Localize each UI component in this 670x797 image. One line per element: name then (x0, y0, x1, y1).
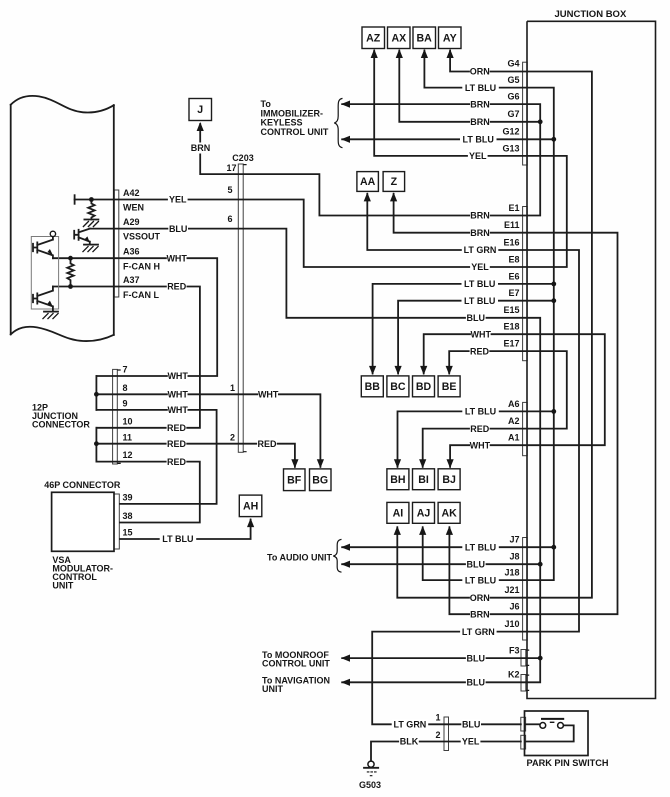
svg-text:LT BLU: LT BLU (464, 279, 495, 289)
label LT BLU wire at y301 (462, 295, 499, 306)
wire RED A37 F-CAN L to 12P row10 (53, 287, 200, 428)
label BRN wire at y104 (470, 99, 490, 110)
svg-text:E6: E6 (508, 271, 519, 281)
node 12P row11 junction (94, 441, 99, 446)
svg-text:BI: BI (418, 474, 429, 486)
node A6 junction (551, 409, 556, 414)
label LT BLU wire at y284 (462, 278, 499, 289)
12P left bus RED rows 10-12 (95, 428, 97, 462)
wire WHT 12P row8 / C203 pin1 / BG (96, 394, 320, 467)
label YEL wire at y156 (468, 150, 488, 161)
svg-text:G503: G503 (359, 780, 381, 790)
wire LT BLU 46P pin15 to AH (120, 520, 251, 540)
wire RED 12P row11 / C203 pin2 / BF (96, 444, 295, 467)
svg-text:JUNCTION BOX: JUNCTION BOX (555, 9, 627, 20)
label BRN wire at y233 (470, 227, 490, 238)
svg-text:CONTROL UNIT: CONTROL UNIT (261, 127, 329, 137)
svg-text:LT BLU: LT BLU (465, 542, 496, 552)
label RED wire at y462 (167, 456, 187, 467)
svg-text:UNIT: UNIT (262, 684, 283, 694)
terminal box BJ (438, 469, 460, 490)
label ORN wire at y598 (470, 592, 490, 603)
label RED wire at y351 (470, 346, 490, 357)
node G12/LTBLU junction (551, 137, 556, 142)
svg-text:AX: AX (391, 32, 406, 44)
junction box connector bar E1-E17 (523, 207, 528, 361)
svg-text:BA: BA (417, 32, 433, 44)
svg-text:WHT: WHT (167, 371, 188, 381)
svg-text:AI: AI (393, 507, 404, 519)
svg-text:BRN: BRN (191, 143, 211, 153)
svg-text:E18: E18 (503, 322, 519, 332)
junction box connector F3 (521, 650, 526, 667)
svg-text:AH: AH (243, 501, 258, 513)
terminal box AY (439, 27, 462, 49)
svg-text:LT GRN: LT GRN (393, 720, 426, 730)
wire RED 12P row12 to 46P pin38 (96, 462, 199, 523)
svg-text:ORN: ORN (470, 66, 490, 76)
svg-text:2: 2 (435, 730, 440, 740)
wire BRN net2: Z / E11 / J6 / AK (394, 194, 618, 614)
svg-text:BLU: BLU (467, 653, 486, 663)
label WHT wire at y445 (470, 440, 490, 451)
brace immobilizer (334, 98, 342, 147)
svg-text:BJ: BJ (442, 474, 456, 486)
wire LT BLU A6 to BH (398, 411, 554, 466)
svg-text:To AUDIO UNIT: To AUDIO UNIT (267, 553, 332, 563)
12P junction connector bar (113, 369, 118, 464)
park pin switch connector pin 2 bar (521, 735, 526, 749)
junction box connector bar A6-A1 (523, 402, 528, 455)
label BLU wire at y318 (466, 312, 486, 323)
svg-text:A36: A36 (123, 246, 140, 256)
VSA modulator module outline (torn edges) (11, 96, 114, 113)
terminal box BD (413, 376, 435, 397)
svg-text:1: 1 (230, 383, 235, 393)
svg-text:WHT: WHT (471, 329, 492, 339)
svg-text:BC: BC (390, 381, 406, 393)
node E7 junction (551, 298, 556, 303)
svg-text:CONNECTOR: CONNECTOR (32, 420, 90, 430)
svg-text:WEN: WEN (123, 202, 144, 212)
brace audio (333, 539, 341, 572)
svg-text:A1: A1 (508, 433, 520, 443)
terminal box BB (361, 376, 383, 397)
svg-text:AY: AY (443, 32, 457, 44)
terminal tick A42 (74, 195, 76, 204)
inline connector pins 1-2 bar (444, 717, 449, 751)
svg-text:9: 9 (123, 399, 128, 409)
svg-text:AA: AA (360, 176, 376, 188)
terminal box BC (387, 376, 409, 397)
svg-text:RED: RED (167, 282, 187, 292)
svg-text:BB: BB (365, 381, 381, 393)
park pin switch box (525, 711, 589, 756)
transistor Q1 (F-CAN H) (33, 237, 53, 259)
svg-text:E16: E16 (503, 237, 519, 247)
svg-text:RED: RED (167, 457, 187, 467)
svg-text:A6: A6 (508, 399, 520, 409)
pull-up terminal circle (50, 231, 55, 236)
svg-text:LT BLU: LT BLU (463, 135, 494, 145)
svg-text:WHT: WHT (166, 253, 187, 263)
svg-text:LT BLU: LT BLU (464, 296, 495, 306)
svg-text:F-CAN L: F-CAN L (123, 290, 159, 300)
svg-text:J6: J6 (509, 602, 519, 612)
transistor Q2 (F-CAN L) (33, 287, 53, 311)
svg-text:G12: G12 (502, 127, 519, 137)
label WHT wire at y334 (471, 329, 491, 340)
wire ORN net: AY / G4 / J21 / AI (397, 51, 592, 598)
node G7/BRN junction (538, 119, 543, 124)
svg-text:7: 7 (123, 365, 128, 375)
transistor Q3 (VSSOUT) (74, 229, 90, 244)
terminal box BE (438, 376, 460, 397)
label ORN wire at y71 (470, 66, 490, 77)
label BLU wire at y724 (461, 719, 481, 730)
svg-text:BLU: BLU (467, 559, 486, 569)
svg-text:G5: G5 (507, 75, 519, 85)
svg-text:YEL: YEL (469, 151, 487, 161)
svg-text:G6: G6 (507, 92, 519, 102)
ground G503 (368, 761, 374, 767)
svg-text:RED: RED (167, 439, 187, 449)
12P left bus WHT rows 7-9 (95, 376, 97, 410)
svg-text:LT BLU: LT BLU (162, 534, 193, 544)
svg-text:J10: J10 (504, 619, 519, 629)
svg-text:UNIT: UNIT (52, 581, 73, 591)
node 12P row8 junction (94, 392, 99, 397)
svg-text:BLK: BLK (400, 737, 419, 747)
label LT GRN wire at y632 (460, 626, 497, 637)
svg-text:J8: J8 (509, 552, 519, 562)
svg-text:LT BLU: LT BLU (465, 83, 496, 93)
label LT BLU wire at y139 (460, 134, 497, 145)
label RED wire at y444 (167, 438, 187, 449)
svg-text:BH: BH (390, 474, 405, 486)
svg-text:K2: K2 (508, 670, 520, 680)
terminal box BG (310, 469, 332, 491)
svg-text:BD: BD (416, 381, 432, 393)
label YEL wire at y200 (168, 194, 188, 205)
svg-text:YEL: YEL (462, 737, 480, 747)
label WHT wire at y394 (168, 389, 188, 400)
svg-text:BLU: BLU (467, 313, 486, 323)
svg-text:38: 38 (123, 511, 133, 521)
svg-text:A42: A42 (123, 188, 140, 198)
label LT GRN wire at y250 (462, 244, 499, 255)
wire BRN net: G6/G7/AX, E1, C203 pin17, J box (200, 104, 540, 215)
svg-text:J: J (197, 104, 203, 116)
svg-text:11: 11 (123, 432, 133, 442)
ground (VSSOUT emitter) (84, 244, 98, 246)
svg-text:BLU: BLU (462, 720, 481, 730)
svg-text:E15: E15 (503, 305, 519, 315)
terminal box Z (383, 172, 405, 192)
svg-text:YEL: YEL (169, 195, 187, 205)
terminal box BA (413, 27, 436, 49)
label WHT wire at y258 (167, 253, 187, 264)
svg-text:E1: E1 (508, 203, 519, 213)
terminal box J (189, 99, 212, 121)
svg-text:G7: G7 (507, 109, 519, 119)
terminal box AK (438, 502, 460, 523)
svg-text:39: 39 (123, 493, 133, 503)
ground (WEN resistor) (84, 219, 98, 221)
svg-text:E8: E8 (508, 254, 519, 264)
svg-text:LT GRN: LT GRN (462, 627, 495, 637)
svg-text:C203: C203 (232, 153, 254, 163)
svg-text:BRN: BRN (470, 609, 490, 619)
svg-text:F-CAN H: F-CAN H (123, 261, 160, 271)
wire WHT 12P row9 to 46P pin39 (96, 410, 216, 504)
label WHT wire at y394 (258, 389, 278, 400)
svg-text:J18: J18 (504, 568, 519, 578)
junction box outline (527, 21, 656, 698)
wire LT BLU J7 to audio unit (342, 546, 554, 548)
terminal box AX (388, 27, 411, 49)
terminal box AH (239, 495, 261, 516)
label BRN wire at y122 (470, 116, 490, 127)
svg-text:17: 17 (226, 163, 236, 173)
label BLU wire at y682 (466, 677, 486, 688)
ground (Q2 emitter) (44, 311, 58, 313)
wire LT GRN net: AA / E16 / J10 / park pin switch pin1 (367, 194, 579, 725)
svg-text:BRN: BRN (470, 99, 490, 109)
label BRN wire at y614 (470, 609, 490, 620)
svg-text:BLU: BLU (169, 224, 188, 234)
svg-text:15: 15 (123, 528, 133, 538)
terminal box BH (387, 469, 409, 490)
svg-text:RED: RED (257, 439, 277, 449)
svg-text:1: 1 (435, 713, 440, 723)
label RED wire at y286 (167, 281, 187, 292)
svg-text:A37: A37 (123, 275, 140, 285)
label YEL wire at y742 (461, 736, 481, 747)
label BLU wire at y564 (466, 559, 486, 570)
wire LT BLU E7 to BC (398, 301, 554, 374)
node F3 junction (538, 656, 543, 661)
node J7 junction (551, 545, 556, 550)
svg-text:YEL: YEL (471, 262, 489, 272)
label LT BLU wire at y411 (462, 406, 499, 417)
svg-text:PARK PIN SWITCH: PARK PIN SWITCH (527, 758, 609, 768)
46P connector / VSA modulator box (52, 492, 114, 551)
label WHT wire at y376 (168, 371, 188, 382)
label BRN wire at y148 (191, 143, 211, 154)
terminal box AI (387, 502, 409, 523)
svg-text:46P CONNECTOR: 46P CONNECTOR (44, 480, 121, 490)
park pin switch connector pin 1 bar (521, 717, 526, 731)
svg-text:A29: A29 (123, 217, 140, 227)
svg-text:CONTROL UNIT: CONTROL UNIT (262, 658, 330, 668)
svg-text:BLU: BLU (467, 678, 486, 688)
svg-text:BRN: BRN (470, 211, 490, 221)
wire RED net: E17 / BE / A2 / BI (423, 351, 567, 467)
wire BLU net: A29 VSSOUT / C203 pin6 / E15 / J8 / F3 / K2 (90, 229, 540, 683)
wire LT BLU G12 to immobilizer (342, 138, 554, 140)
svg-text:RED: RED (470, 424, 490, 434)
svg-text:WHT: WHT (167, 405, 188, 415)
svg-text:AJ: AJ (417, 507, 431, 519)
terminal box BI (413, 469, 435, 490)
wire BLU F3 to moonroof control unit (342, 657, 540, 659)
svg-text:BF: BF (287, 474, 302, 486)
svg-text:6: 6 (227, 214, 232, 224)
svg-text:BRN: BRN (470, 117, 490, 127)
svg-text:J21: J21 (504, 585, 519, 595)
wire LT BLU E6 to BB (373, 284, 554, 374)
junction box connector bar G4-G13 (523, 62, 528, 165)
svg-text:Z: Z (391, 176, 398, 188)
svg-text:F3: F3 (509, 646, 520, 656)
svg-text:J7: J7 (509, 535, 519, 545)
svg-text:ORN: ORN (470, 593, 490, 603)
svg-text:12: 12 (123, 450, 133, 460)
wire BLK park pin switch pin2 to ground G503 (371, 742, 521, 762)
node E6 junction (551, 282, 556, 287)
svg-text:BRN: BRN (470, 228, 490, 238)
svg-text:LT BLU: LT BLU (465, 575, 496, 585)
svg-text:G13: G13 (502, 143, 519, 153)
node J8 junction (538, 562, 543, 567)
park pin switch contacts and internal wiring (526, 723, 540, 725)
label LT BLU wire at y547 (462, 542, 499, 553)
svg-text:5: 5 (227, 185, 232, 195)
svg-text:E11: E11 (504, 220, 520, 230)
label BLK wire at y742 (399, 736, 419, 747)
wire BLU J8 to audio unit (342, 563, 540, 565)
connector C203 bar (238, 164, 243, 452)
svg-text:BE: BE (442, 381, 457, 393)
label BRN wire at y216 (470, 210, 490, 221)
svg-text:WHT: WHT (167, 390, 188, 400)
label RED wire at y429 (470, 423, 490, 434)
svg-text:2: 2 (230, 432, 235, 442)
svg-text:8: 8 (123, 383, 128, 393)
svg-text:A2: A2 (508, 416, 520, 426)
junction box connector bar J7-J10 (523, 538, 528, 641)
svg-text:AK: AK (441, 507, 457, 519)
label BLU wire at y658 (466, 653, 486, 664)
wire WHT A36 F-CAN H to 12P row7 (53, 258, 217, 376)
svg-text:RED: RED (167, 423, 187, 433)
junction box connector K2 (521, 675, 526, 692)
terminal box AZ (362, 27, 385, 49)
resistor R (WEN pull) (88, 200, 94, 220)
svg-text:WHT: WHT (258, 390, 279, 400)
svg-text:RED: RED (470, 346, 490, 356)
label LT BLU wire at y88 (462, 82, 499, 93)
terminal box AJ (413, 502, 435, 523)
svg-text:VSSOUT: VSSOUT (123, 231, 161, 241)
VSA module connector bar A42-A37 (114, 190, 119, 297)
label RED wire at y428 (167, 422, 187, 433)
label LT BLU wire at y580 (462, 575, 499, 586)
svg-text:G4: G4 (507, 59, 519, 69)
label YEL wire at y267 (470, 262, 490, 273)
label RED wire at y444 (257, 438, 277, 449)
wire YEL net: AZ / G13 / E8 / C203 pin5 / A42 WEN (75, 51, 567, 268)
svg-text:10: 10 (123, 416, 133, 426)
svg-text:AZ: AZ (366, 32, 381, 44)
terminal box AA (357, 172, 379, 192)
svg-text:E7: E7 (508, 288, 519, 298)
wire WHT net: E18 / BD / A1 / BJ (424, 334, 605, 467)
resistor R2 between F-CAN H and F-CAN L (67, 258, 73, 286)
svg-text:BG: BG (312, 474, 328, 486)
label BLU wire at y229 (168, 223, 188, 234)
label WHT wire at y410 (168, 404, 188, 415)
46P connector pin bar (114, 494, 119, 549)
svg-text:WHT: WHT (470, 440, 491, 450)
label LT BLU wire at y539 (160, 534, 197, 545)
label LT GRN wire at y724 (392, 719, 429, 730)
terminal box BF (284, 469, 306, 491)
svg-text:E17: E17 (503, 339, 519, 349)
wire LT BLU net: BA / G5 / bus / J18 / AJ (423, 51, 554, 581)
CAN driver block outline (31, 237, 58, 310)
wire BRN G7 from AX (399, 51, 540, 122)
svg-text:LT BLU: LT BLU (465, 407, 496, 417)
svg-text:LT GRN: LT GRN (464, 245, 497, 255)
